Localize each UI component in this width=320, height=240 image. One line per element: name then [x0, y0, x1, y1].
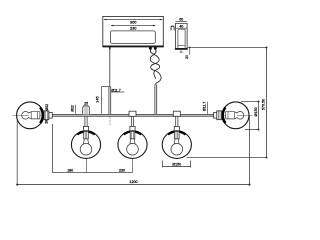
dim 20 tick	[189, 47, 191, 49]
dim 145	[101, 87, 103, 114]
right sphere socket crescent	[223, 108, 226, 124]
label D11.7 left	[111, 91, 125, 93]
lamp3 cap	[173, 111, 180, 116]
dim 230 line	[111, 25, 155, 27]
canopy side view outer rect	[176, 23, 188, 48]
svg-text:Ø22: Ø22	[71, 105, 75, 112]
canopy side bottom edge	[175, 48, 188, 50]
left end sphere	[17, 102, 44, 129]
svg-text:Ø32: Ø32	[45, 104, 49, 111]
dim 180 230 extension lines	[52, 124, 54, 173]
svg-text:300: 300	[130, 19, 137, 24]
left bulb	[22, 112, 30, 120]
svg-text:180: 180	[67, 169, 73, 173]
rod left	[108, 87, 110, 115]
right bulb	[236, 112, 244, 120]
right socket	[217, 111, 222, 120]
left sphere socket crescent	[40, 108, 43, 124]
lamp2 cap	[129, 111, 136, 116]
arm collar right	[214, 113, 218, 119]
lamp2 assembly	[118, 116, 147, 158]
arm collar left	[49, 113, 53, 119]
canopy plan bottom edge	[102, 45, 163, 47]
svg-text:1200: 1200	[129, 180, 137, 184]
dim D150 under lamp3	[162, 161, 164, 168]
side view center tick	[180, 50, 182, 53]
svg-text:230: 230	[130, 25, 137, 30]
svg-text:40: 40	[180, 24, 184, 28]
lamp1 cap	[83, 106, 90, 115]
svg-text:230: 230	[119, 169, 125, 173]
lamp1 hanger dash	[86, 159, 88, 173]
dim 300 line	[104, 19, 162, 21]
svg-text:576.50: 576.50	[262, 99, 266, 110]
svg-text:Ø150: Ø150	[254, 107, 258, 116]
svg-text:Ø150: Ø150	[172, 162, 181, 166]
svg-text:25: 25	[84, 102, 88, 106]
arm tube	[52, 113, 213, 115]
canopy plan inner panel	[111, 31, 156, 44]
svg-text:Ø11.7: Ø11.7	[111, 88, 120, 92]
svg-text:60: 60	[179, 18, 183, 22]
cable screw dots strands	[150, 50, 161, 85]
canopy side inner lines	[178, 29, 185, 48]
dim 180/230 line	[53, 172, 133, 174]
dim 60	[176, 21, 188, 23]
left socket	[44, 111, 49, 120]
canopy screw dots	[149, 47, 152, 50]
suspension wire left	[109, 49, 111, 87]
mounting clip	[171, 26, 174, 30]
centerline left sphere	[13, 114, 52, 116]
dim D150 right sphere	[241, 101, 259, 103]
svg-text:20: 20	[185, 55, 189, 59]
canopy plan outer rect	[103, 16, 164, 46]
arm tube interior	[52, 114, 213, 116]
dim 40	[176, 27, 187, 29]
svg-text:145: 145	[96, 96, 100, 102]
lamp1 assembly	[71, 116, 100, 158]
bottom tangent line to 576 dim	[187, 157, 267, 159]
rod right	[154, 85, 156, 115]
svg-text:Ø11.7: Ø11.7	[203, 102, 207, 112]
centerline right sphere	[219, 114, 253, 116]
right end sphere	[222, 102, 249, 129]
canopy stem tick	[109, 46, 111, 49]
svg-text:28: 28	[45, 120, 49, 124]
dim 1200	[16, 120, 18, 185]
lamp2 hanger dash	[132, 159, 134, 173]
lamp3 assembly	[162, 116, 191, 158]
dim 576.50	[188, 47, 267, 49]
